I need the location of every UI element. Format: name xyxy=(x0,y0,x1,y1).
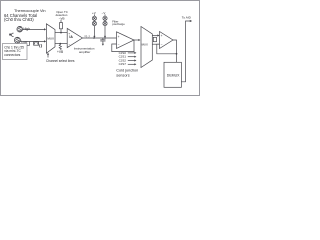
svg-text:MUX: MUX xyxy=(142,42,148,46)
node A xyxy=(93,37,95,39)
node C xyxy=(176,53,178,55)
node label Thermocouple Vin xyxy=(14,8,46,13)
svg-text:+VB: +VB xyxy=(57,50,63,54)
svg-text:+V: +V xyxy=(92,11,96,15)
label Open TC detection xyxy=(56,10,68,20)
feedback wire U3 xyxy=(112,40,134,52)
MUX U4 (second multiplexer) xyxy=(141,27,152,68)
svg-text:×(..): ×(..) xyxy=(84,34,89,38)
small protection components under Low wire xyxy=(34,41,42,47)
wire U5 output down xyxy=(173,40,177,62)
svg-text:IA: IA xyxy=(69,35,73,39)
wire High to MUX xyxy=(23,28,45,30)
svg-text:(Ch0 thru Ch63): (Ch0 thru Ch63) xyxy=(4,17,34,22)
resistor R1 (open TC bias, high side) xyxy=(60,23,63,29)
svg-text:sensors: sensors xyxy=(116,74,129,78)
svg-text:precharge: precharge xyxy=(112,22,125,26)
border frame xyxy=(1,1,200,96)
wire DEMUX to A/D xyxy=(181,21,190,82)
feedback wire U5 xyxy=(157,44,177,54)
wire CJS7 xyxy=(128,63,135,65)
channel select arrow to MUX xyxy=(47,55,49,58)
svg-text:High: High xyxy=(23,27,30,31)
svg-text:To A/D: To A/D xyxy=(182,15,192,19)
svg-text:−: − xyxy=(69,43,71,47)
svg-text:−VB: −VB xyxy=(59,16,65,20)
DEMUX box xyxy=(164,62,181,87)
wires MUX2 to final amp xyxy=(152,35,157,37)
wire MUX out high to IA xyxy=(55,32,67,34)
small component between amp inputs xyxy=(153,37,156,41)
capacitor C1 xyxy=(100,38,105,46)
svg-text:Channel select lines: Channel select lines xyxy=(46,59,75,63)
svg-text:connectors: connectors xyxy=(4,53,20,57)
svg-text:Cold junction: Cold junction xyxy=(116,69,138,73)
wire U3 out to MUX2 xyxy=(134,39,139,41)
wire MUX out low to IA xyxy=(55,43,67,45)
wire Low to MUX xyxy=(20,40,44,42)
connector plug symbol xyxy=(9,33,13,36)
op-amp U2 instrumentation amplifier IA xyxy=(67,28,82,47)
wire CJS0 xyxy=(128,52,135,54)
wire CJS1 xyxy=(128,56,135,58)
wire CJS2 xyxy=(128,60,135,62)
svg-text:MUX: MUX xyxy=(47,37,54,41)
cold junction sensor inputs xyxy=(119,51,127,66)
callout line xyxy=(27,42,30,46)
svg-text:DEMUX: DEMUX xyxy=(167,73,180,77)
node on IA - input xyxy=(59,43,61,45)
resistor R2 (open TC bias, low side) xyxy=(59,44,61,50)
box note: Chs via mini-TC connectors xyxy=(3,42,30,60)
gain label xyxy=(84,34,89,38)
op-amp U5 (output amplifier) xyxy=(160,32,174,49)
op-amp U3 (filter buffer) xyxy=(117,32,135,49)
svg-text:−: − xyxy=(118,42,120,46)
wire IA output to filter amp xyxy=(82,37,116,39)
svg-text:+: + xyxy=(68,31,70,35)
connector Low (hatched circle) xyxy=(14,37,20,43)
svg-text:+: + xyxy=(161,34,163,38)
connector High (hatched circle) xyxy=(17,26,23,32)
switch S1 chain (filter) xyxy=(92,14,96,38)
svg-text:−: − xyxy=(161,43,163,47)
node on IA + input xyxy=(60,32,62,34)
svg-text:CJS7: CJS7 xyxy=(119,62,127,66)
svg-text:+: + xyxy=(118,35,120,39)
label +V xyxy=(92,11,96,15)
note 64 channels xyxy=(4,13,37,22)
wire -VB to node xyxy=(60,20,62,23)
svg-text:−V: −V xyxy=(102,11,106,15)
switch S2 chain (precharge) xyxy=(103,14,107,38)
node B xyxy=(104,37,106,39)
MUX U1 (input multiplexer) xyxy=(46,24,55,53)
svg-text:amplifier: amplifier xyxy=(79,50,90,54)
label -V xyxy=(102,11,106,15)
